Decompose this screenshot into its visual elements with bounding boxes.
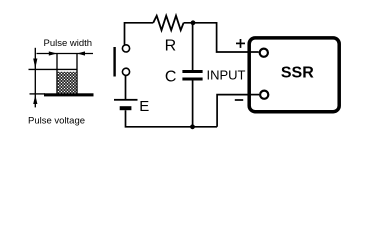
svg-text:C: C <box>165 69 177 86</box>
wire: resistor to riser corner <box>184 23 259 52</box>
capacitor C top plate <box>182 70 202 73</box>
capacitor C bottom plate <box>182 78 202 81</box>
resistor R <box>153 16 183 31</box>
wire: switch to battery <box>125 75 127 99</box>
wire: top-left vertical from top wire to switch <box>125 23 154 45</box>
battery E negative plate <box>120 106 132 110</box>
svg-text:SSR: SSR <box>281 65 314 82</box>
pulse voltage dimension line <box>34 48 36 108</box>
svg-text:INPUT: INPUT <box>207 68 246 83</box>
pulse left edge extension line <box>56 54 58 95</box>
SSR top terminal <box>260 49 268 57</box>
wire: bottom riser to minus stub <box>217 95 259 127</box>
wire: battery to bottom wire <box>126 110 218 127</box>
junction node bottom <box>190 124 195 129</box>
svg-text:Pulse width: Pulse width <box>44 38 93 49</box>
pulse width right arrowhead <box>77 51 85 55</box>
switch top contact <box>122 45 129 52</box>
svg-text:Pulse voltage: Pulse voltage <box>28 115 85 126</box>
pulse voltage bottom arrowhead <box>33 95 37 104</box>
pulse width left arrowhead <box>49 51 57 55</box>
svg-text:E: E <box>139 98 149 115</box>
battery E positive plate <box>114 99 138 101</box>
label + (positive input terminal) <box>236 39 245 48</box>
capacitor C bottom lead wire <box>192 81 194 127</box>
pulse width dimension line <box>37 53 94 55</box>
SSR top terminal stub <box>248 51 259 53</box>
label - (negative input terminal) <box>235 99 243 101</box>
baseline thick bar <box>44 93 94 96</box>
pulse top reference line <box>29 68 78 70</box>
switch bottom contact <box>122 68 129 75</box>
junction node top <box>191 20 196 25</box>
SSR module body <box>249 38 339 112</box>
switch lever bar <box>113 47 115 77</box>
SSR bottom terminal stub <box>248 94 260 96</box>
capacitor C top lead wire <box>192 23 194 70</box>
pulse right edge extension line <box>76 54 78 95</box>
svg-text:R: R <box>165 38 177 55</box>
pulse voltage top arrowhead <box>33 59 37 69</box>
pulse hatched body <box>58 72 77 94</box>
baseline thin extension <box>30 93 46 95</box>
SSR bottom terminal <box>260 91 268 99</box>
